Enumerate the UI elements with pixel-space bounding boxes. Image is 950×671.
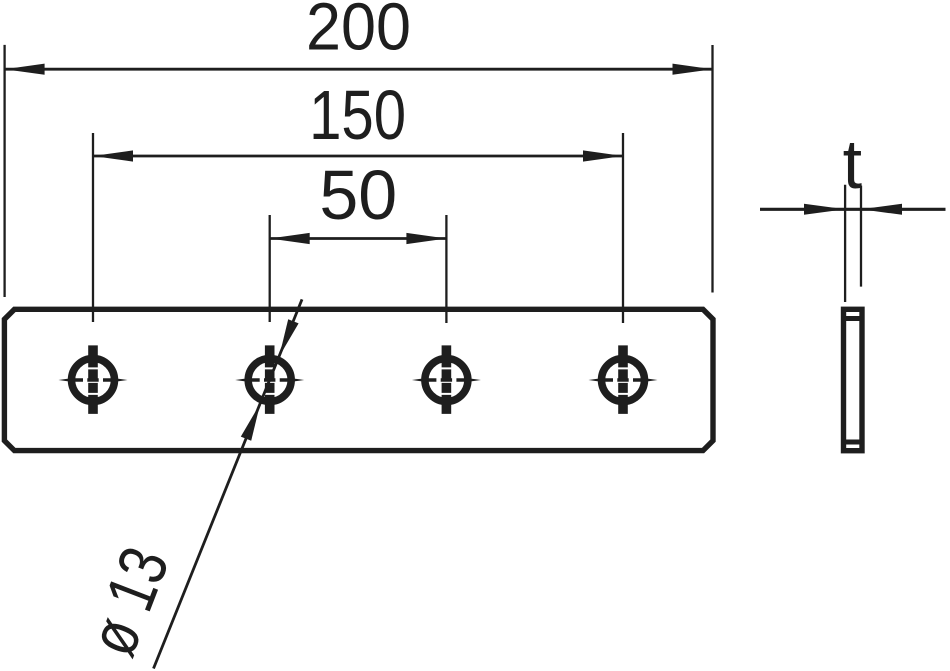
arrowhead left (50 dim): [270, 233, 310, 244]
hole 1 horizontal centerline (tapered): [59, 378, 128, 381]
side view inner edge line bottom: [844, 440, 863, 445]
dimension line 200: [5, 68, 713, 71]
arrowhead right (200 dim): [673, 64, 713, 75]
arrowhead left pointing right (thickness dim): [804, 204, 845, 215]
extension line left (150 dim): [92, 133, 94, 322]
leader arrowhead upper (points to hole 2 top-right edge): [279, 319, 298, 356]
leader line for hole diameter callout: [154, 299, 303, 668]
plate outline (front view, chamfered corners): [4, 309, 713, 450]
hole 4 circle: [602, 359, 645, 402]
hole 4 vertical centerline (thick dashed): [618, 345, 628, 414]
hole 4 centerline gap right: [629, 377, 633, 383]
side view inner edge line top: [844, 316, 863, 321]
svg-text:150: 150: [309, 76, 406, 154]
hole 2 centerline gap left: [260, 377, 264, 383]
arrowhead right (50 dim): [406, 233, 446, 244]
dimension line thickness: [760, 208, 946, 211]
hole 2 horizontal centerline (tapered): [235, 378, 304, 381]
extension line left (50 dim): [269, 215, 271, 322]
dimension line 50: [270, 237, 447, 240]
hole 2 vertical centerline (thick dashed): [265, 345, 275, 414]
extension line right (thickness dim): [860, 186, 862, 287]
hole 1 centerline gap left: [83, 377, 87, 383]
arrowhead left (200 dim): [5, 64, 45, 75]
side view plate outline: [844, 309, 863, 450]
hole 3 vertical centerline (thick dashed): [442, 345, 452, 414]
svg-text:200: 200: [306, 0, 411, 65]
extension line left (thickness dim): [844, 185, 846, 302]
arrowhead right pointing left (thickness dim): [861, 204, 902, 215]
extension line right (200 dim): [711, 45, 713, 293]
svg-text:50: 50: [319, 156, 397, 234]
hole 4 horizontal centerline (tapered): [589, 378, 658, 381]
extension line right (150 dim): [622, 133, 624, 323]
leader arrowhead lower (points to hole 2 bottom-left edge): [241, 404, 260, 441]
extension line left (200 dim): [3, 45, 5, 297]
hole 3 horizontal centerline (tapered): [412, 378, 481, 381]
hole 3 centerline gap right: [452, 377, 456, 383]
hole 4 centerline gap left: [613, 377, 617, 383]
arrowhead left (150 dim): [93, 150, 133, 161]
dimension line 150: [93, 155, 623, 158]
hole 1 centerline gap right: [99, 377, 103, 383]
hole 2 centerline gap right: [275, 377, 279, 383]
hole 2 circle: [248, 359, 291, 402]
arrowhead right (150 dim): [583, 150, 623, 161]
hole 1 circle: [72, 359, 115, 402]
hole 1 vertical centerline (thick dashed): [88, 345, 98, 414]
hole 3 centerline gap left: [436, 377, 440, 383]
hole 3 circle: [425, 359, 468, 402]
extension line right (50 dim): [445, 215, 447, 323]
